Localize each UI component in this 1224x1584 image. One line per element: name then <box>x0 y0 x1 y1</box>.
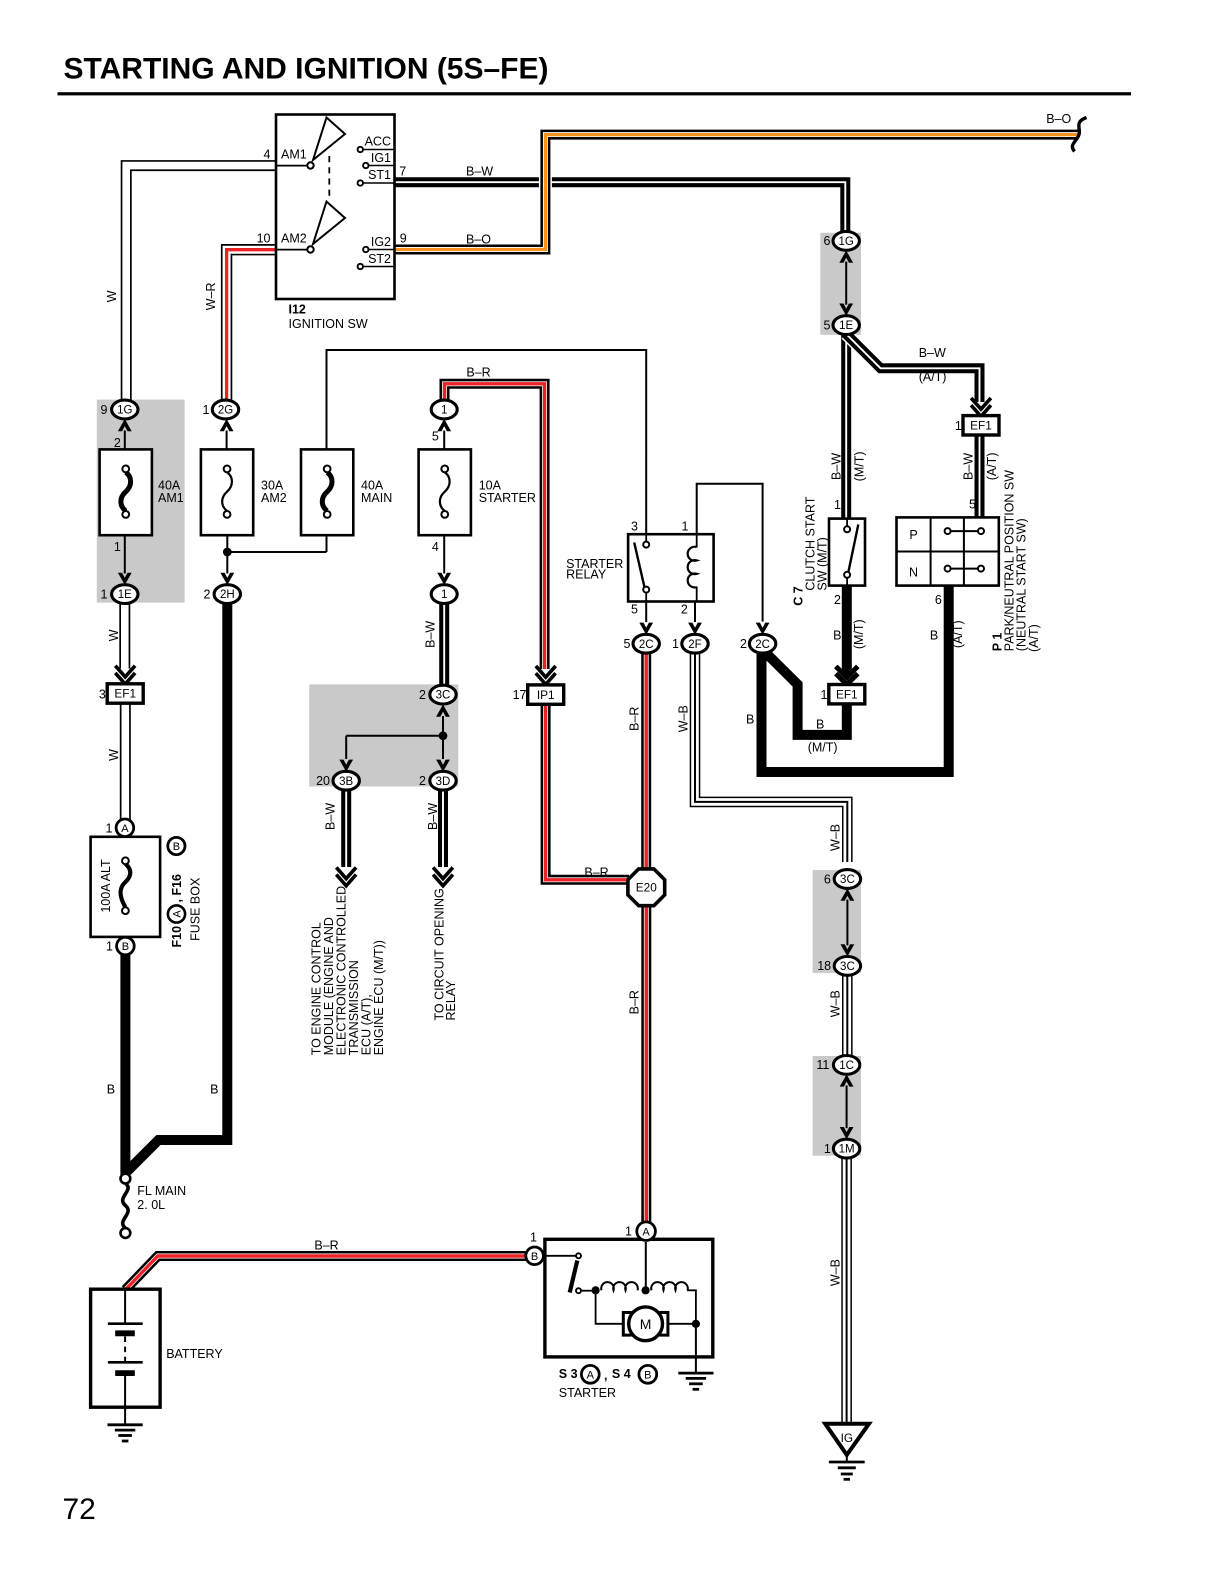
svg-text:1: 1 <box>441 589 447 601</box>
svg-text:MAIN: MAIN <box>361 491 392 505</box>
svg-text:(M/T): (M/T) <box>853 451 867 481</box>
svg-text:W–B: W–B <box>829 990 843 1017</box>
svg-text:2G: 2G <box>218 405 233 417</box>
svg-text:100A ALT: 100A ALT <box>99 859 113 913</box>
svg-text:1: 1 <box>821 688 828 702</box>
svg-text:2: 2 <box>114 436 121 450</box>
svg-text:B–W: B–W <box>424 621 438 648</box>
svg-text:6: 6 <box>935 593 942 607</box>
svg-text:ST1: ST1 <box>368 168 391 182</box>
svg-text:(A/T): (A/T) <box>985 453 999 481</box>
svg-text:6: 6 <box>824 234 831 248</box>
svg-text:1: 1 <box>955 419 962 433</box>
svg-text:B–R: B–R <box>628 707 642 731</box>
svg-text:3D: 3D <box>436 776 451 788</box>
svg-text:EF1: EF1 <box>114 687 136 701</box>
svg-text:B–W: B–W <box>919 346 946 360</box>
svg-text:1G: 1G <box>839 236 854 248</box>
svg-text:BATTERY: BATTERY <box>166 1347 223 1361</box>
svg-text:AM1: AM1 <box>281 147 307 161</box>
svg-text:A: A <box>587 1369 595 1381</box>
svg-text:11: 11 <box>816 1058 829 1072</box>
svg-text:AM2: AM2 <box>281 232 307 246</box>
svg-text:1: 1 <box>824 1142 831 1156</box>
svg-text:S 4: S 4 <box>612 1367 631 1381</box>
svg-text:1C: 1C <box>839 1060 854 1072</box>
svg-text:IG1: IG1 <box>371 151 391 165</box>
svg-text:B–W: B–W <box>962 453 976 480</box>
svg-text:B: B <box>531 1251 538 1263</box>
svg-text:W–B: W–B <box>677 705 691 732</box>
svg-text:3C: 3C <box>840 961 855 973</box>
svg-text:20: 20 <box>316 774 330 788</box>
svg-text:7: 7 <box>399 165 406 179</box>
svg-text:3C: 3C <box>436 690 451 702</box>
svg-text:A: A <box>121 823 129 835</box>
svg-text:2: 2 <box>419 688 426 702</box>
svg-text:B–W: B–W <box>426 803 440 830</box>
svg-text:9: 9 <box>400 231 407 245</box>
svg-text:2C: 2C <box>755 639 770 651</box>
svg-text:E20: E20 <box>636 881 657 895</box>
svg-text:3: 3 <box>631 519 638 533</box>
svg-text:1: 1 <box>441 405 447 417</box>
svg-text:1: 1 <box>203 403 210 417</box>
svg-text:1: 1 <box>114 540 121 554</box>
svg-text:2H: 2H <box>220 589 235 601</box>
svg-text:W: W <box>107 629 121 641</box>
svg-text:F10: F10 <box>170 926 184 948</box>
svg-text:2: 2 <box>834 593 841 607</box>
svg-text:5: 5 <box>432 430 439 444</box>
svg-text:4: 4 <box>264 147 271 161</box>
svg-text:3: 3 <box>99 688 106 702</box>
svg-text:ENGINE ECU (M/T)): ENGINE ECU (M/T)) <box>372 940 386 1055</box>
svg-text:W: W <box>105 290 119 302</box>
svg-text:W–B: W–B <box>829 1259 843 1286</box>
svg-text:B: B <box>122 941 129 953</box>
svg-text:1: 1 <box>681 519 688 533</box>
svg-text:17: 17 <box>513 688 527 702</box>
svg-text:ACC: ACC <box>365 134 391 148</box>
svg-text:2C: 2C <box>639 639 654 651</box>
svg-text:N: N <box>909 566 918 580</box>
svg-text:1: 1 <box>672 637 679 651</box>
svg-text:5: 5 <box>624 637 631 651</box>
svg-text:2: 2 <box>419 774 426 788</box>
svg-text:RELAY: RELAY <box>566 568 607 582</box>
svg-text:STARTER: STARTER <box>559 1386 616 1400</box>
svg-text:AM2: AM2 <box>261 491 287 505</box>
svg-text:1G: 1G <box>117 405 132 417</box>
svg-text:STARTER: STARTER <box>479 491 536 505</box>
svg-text:SW (M/T): SW (M/T) <box>816 537 830 590</box>
svg-text:1M: 1M <box>839 1144 855 1156</box>
svg-text:2: 2 <box>681 602 688 616</box>
svg-text:A: A <box>172 910 184 918</box>
svg-text:18: 18 <box>817 959 831 973</box>
svg-text:B–R: B–R <box>466 365 490 379</box>
svg-text:(A/T): (A/T) <box>919 370 947 384</box>
svg-text:B: B <box>107 1083 115 1097</box>
svg-text:(A/T): (A/T) <box>951 620 965 648</box>
svg-text:2F: 2F <box>688 639 701 651</box>
svg-text:EF1: EF1 <box>836 687 858 701</box>
svg-text:1: 1 <box>834 498 841 512</box>
svg-text:B–O: B–O <box>1046 112 1071 126</box>
svg-text:B–W: B–W <box>829 453 843 480</box>
svg-text:B–R: B–R <box>314 1239 338 1253</box>
svg-text:2. 0L: 2. 0L <box>137 1198 165 1212</box>
svg-text:FL MAIN: FL MAIN <box>137 1184 186 1198</box>
svg-text:ST2: ST2 <box>368 252 391 266</box>
svg-text:B: B <box>210 1083 218 1097</box>
svg-text:FUSE BOX: FUSE BOX <box>189 877 203 941</box>
svg-text:10: 10 <box>257 232 271 246</box>
svg-text:B: B <box>930 628 938 642</box>
svg-text:S 3: S 3 <box>559 1367 578 1381</box>
svg-text:P: P <box>909 528 917 542</box>
svg-text:I12: I12 <box>289 303 306 317</box>
svg-text:W–R: W–R <box>204 283 218 311</box>
svg-text:A: A <box>642 1226 650 1238</box>
svg-text:2: 2 <box>740 637 747 651</box>
svg-text:5: 5 <box>969 498 976 512</box>
svg-text:B–R: B–R <box>584 866 608 880</box>
svg-text:B: B <box>833 628 841 642</box>
svg-text:(M/T): (M/T) <box>808 740 838 754</box>
svg-text:2: 2 <box>204 587 211 601</box>
svg-text:1: 1 <box>106 939 113 953</box>
svg-text:B–W: B–W <box>466 165 493 179</box>
svg-text:W: W <box>107 749 121 761</box>
svg-text:B: B <box>173 841 180 853</box>
svg-text:, F16: , F16 <box>170 874 184 903</box>
svg-text:W–B: W–B <box>829 824 843 851</box>
svg-text:STARTING AND IGNITION (5S–FE): STARTING AND IGNITION (5S–FE) <box>64 53 549 86</box>
svg-text:5: 5 <box>824 318 831 332</box>
svg-text:3C: 3C <box>840 874 855 886</box>
svg-text:1E: 1E <box>839 320 853 332</box>
svg-text:5: 5 <box>631 602 638 616</box>
svg-text:(M/T): (M/T) <box>852 619 866 649</box>
svg-text:3B: 3B <box>339 776 353 788</box>
svg-text:AM1: AM1 <box>158 491 184 505</box>
svg-text:1E: 1E <box>118 589 132 601</box>
svg-text:IG2: IG2 <box>371 235 391 249</box>
svg-text:B: B <box>746 713 754 727</box>
svg-text:M: M <box>640 1316 652 1332</box>
svg-text:IG: IG <box>841 1431 853 1445</box>
svg-text:6: 6 <box>824 872 831 886</box>
svg-text:B: B <box>644 1369 651 1381</box>
svg-text:72: 72 <box>63 1493 96 1526</box>
svg-text:EF1: EF1 <box>970 419 992 433</box>
svg-text:4: 4 <box>432 540 439 554</box>
svg-text:1: 1 <box>101 587 108 601</box>
svg-text:B–O: B–O <box>466 232 491 246</box>
svg-text:(A/T): (A/T) <box>1027 624 1041 652</box>
svg-text:IP1: IP1 <box>537 688 555 702</box>
svg-text:1: 1 <box>106 821 113 835</box>
svg-text:B: B <box>816 718 824 732</box>
svg-text:9: 9 <box>101 403 108 417</box>
svg-text:1: 1 <box>625 1225 632 1239</box>
svg-text:1: 1 <box>530 1231 537 1245</box>
svg-text:B–W: B–W <box>324 803 338 830</box>
svg-text:B–R: B–R <box>628 990 642 1014</box>
svg-text:,: , <box>604 1369 607 1383</box>
svg-text:IGNITION SW: IGNITION SW <box>289 317 368 331</box>
svg-text:RELAY: RELAY <box>444 980 458 1021</box>
